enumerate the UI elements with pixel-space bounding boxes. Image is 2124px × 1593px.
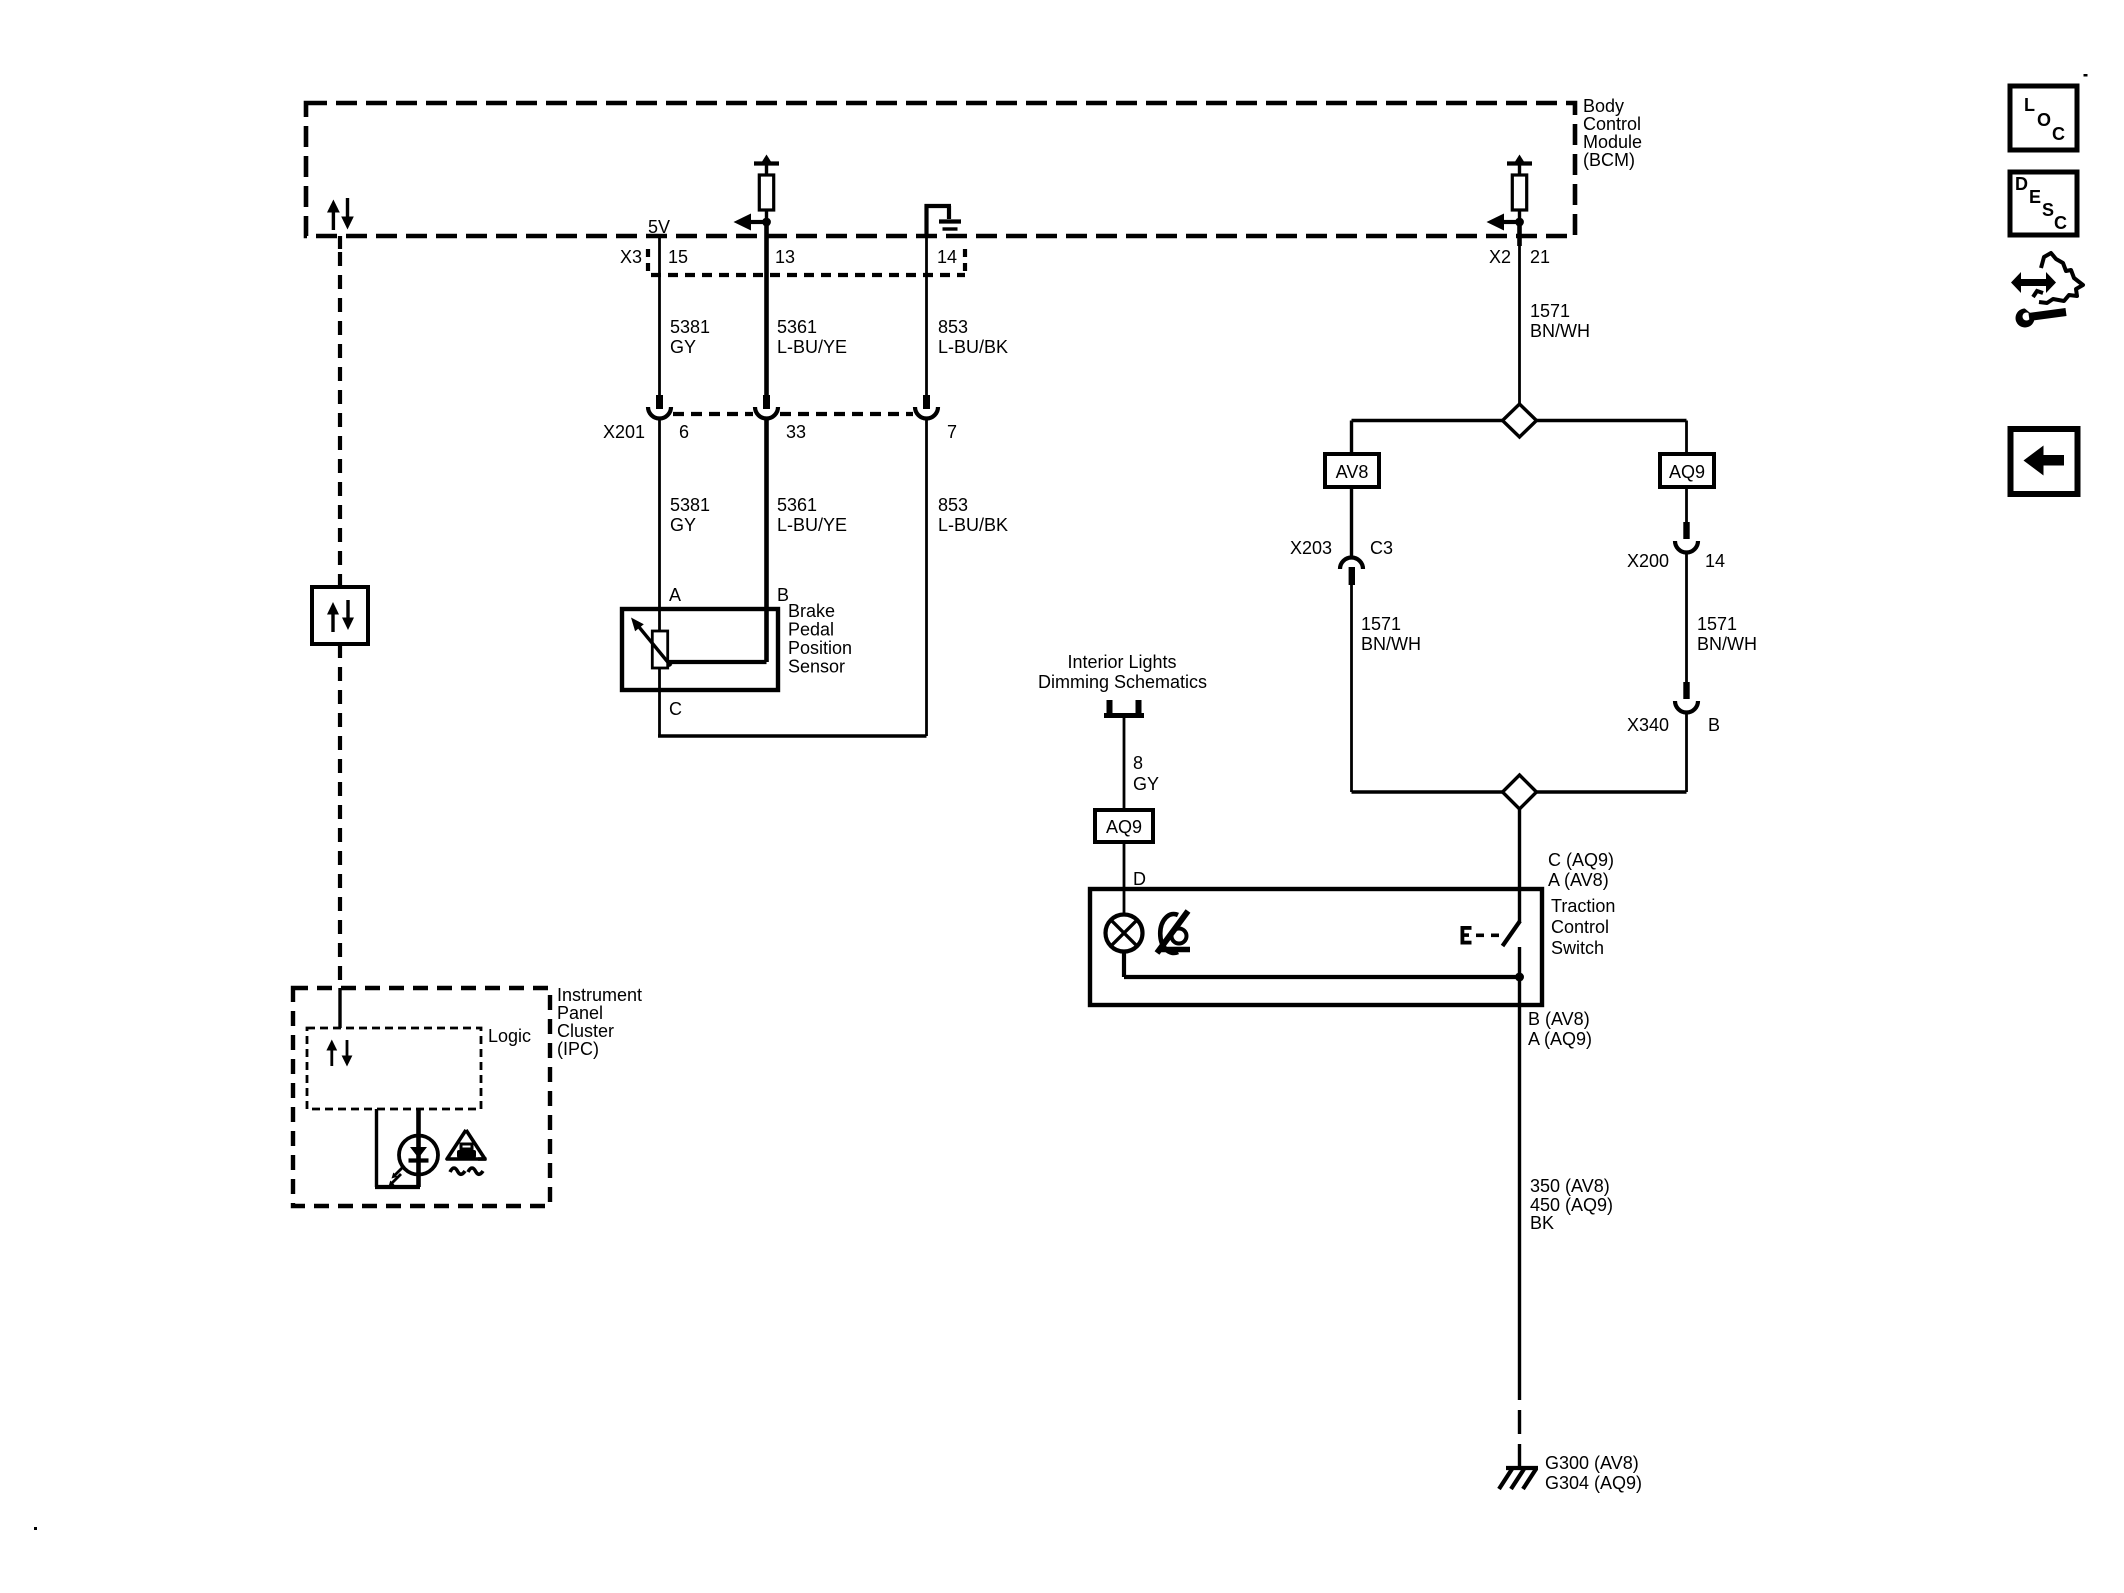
page mark top right bbox=[2084, 74, 2088, 77]
svg-text:BN/WH: BN/WH bbox=[1697, 634, 1757, 654]
svg-text:14: 14 bbox=[937, 247, 957, 267]
label 5361 L-BU/YE (upper) bbox=[777, 317, 847, 357]
svg-text:Pedal: Pedal bbox=[788, 620, 834, 640]
svg-text:Instrument: Instrument bbox=[557, 985, 642, 1005]
TC off icon (switch) bbox=[1157, 911, 1190, 953]
svg-text:C: C bbox=[2052, 124, 2065, 144]
serial data arrows (logic) bbox=[326, 1040, 352, 1067]
lamp (switch illumination) bbox=[1106, 915, 1143, 952]
svg-text:O: O bbox=[2037, 110, 2051, 130]
ESC warning icon (IPC) bbox=[447, 1130, 487, 1174]
svg-text:(BCM): (BCM) bbox=[1583, 150, 1635, 170]
svg-text:450 (AQ9): 450 (AQ9) bbox=[1530, 1195, 1613, 1215]
svg-text:5V: 5V bbox=[648, 217, 670, 237]
wire 853 (X201-7 to sensor C) bbox=[925, 419, 928, 736]
wire switch to ground bbox=[1518, 1005, 1521, 1468]
potentiometer (sensor element) bbox=[631, 618, 671, 669]
svg-text:E: E bbox=[2029, 187, 2041, 207]
label Brake Pedal Position Sensor bbox=[788, 601, 852, 677]
svg-text:X2: X2 bbox=[1489, 247, 1511, 267]
label B (AV8) A (AQ9) bbox=[1528, 1009, 1592, 1049]
label Interior Lights Dimming Schematics bbox=[1038, 652, 1207, 692]
svg-text:Switch: Switch bbox=[1551, 938, 1604, 958]
svg-text:GY: GY bbox=[1133, 774, 1159, 794]
label 5381 GY (lower) bbox=[670, 495, 710, 535]
wire wiper B inside sensor bbox=[668, 660, 767, 664]
svg-text:BN/WH: BN/WH bbox=[1361, 634, 1421, 654]
label BCM bbox=[1583, 96, 1642, 170]
wire into logic bbox=[338, 988, 341, 1028]
svg-text:853: 853 bbox=[938, 495, 968, 515]
svg-text:Control: Control bbox=[1583, 114, 1641, 134]
svg-text:L: L bbox=[2024, 95, 2035, 115]
svg-text:L-BU/BK: L-BU/BK bbox=[938, 515, 1008, 535]
svg-text:15: 15 bbox=[668, 247, 688, 267]
svg-text:X340: X340 bbox=[1627, 715, 1669, 735]
icon DESC box bbox=[2010, 172, 2077, 235]
svg-text:Body: Body bbox=[1583, 96, 1624, 116]
svg-text:L-BU/BK: L-BU/BK bbox=[938, 337, 1008, 357]
svg-text:C3: C3 bbox=[1370, 538, 1393, 558]
wire pin 15 (5381) bbox=[658, 236, 661, 395]
svg-text:BN/WH: BN/WH bbox=[1530, 321, 1590, 341]
net AV8 tag box bbox=[1325, 421, 1379, 488]
svg-text:5361: 5361 bbox=[777, 495, 817, 515]
svg-text:D: D bbox=[1133, 869, 1146, 889]
wire LED loop bbox=[375, 1109, 420, 1187]
splice diamond (top) bbox=[1352, 404, 1687, 437]
label 853 L-BU/BK (upper) bbox=[938, 317, 1008, 357]
svg-text:Interior Lights: Interior Lights bbox=[1067, 652, 1176, 672]
label C (AQ9) A (AV8) bbox=[1548, 850, 1614, 890]
svg-text:X203: X203 bbox=[1290, 538, 1332, 558]
resistor R2 (BCM pull-up, pin 21) bbox=[1507, 155, 1532, 220]
node junction dot (pin 13) bbox=[762, 218, 771, 227]
wire D into switch bbox=[1123, 842, 1126, 915]
component box: Traction Control Switch bbox=[1090, 889, 1542, 1005]
node junction (switch output) bbox=[1515, 973, 1524, 982]
svg-text:B: B bbox=[1708, 715, 1720, 735]
svg-text:Logic: Logic bbox=[488, 1026, 531, 1046]
label 1571 BN/WH (right) bbox=[1697, 614, 1757, 654]
wire lamp to switch common bbox=[1124, 952, 1520, 978]
svg-text:BK: BK bbox=[1530, 1213, 1554, 1233]
svg-text:L-BU/YE: L-BU/YE bbox=[777, 515, 847, 535]
label 350 (AV8) 450 (AQ9) BK bbox=[1530, 1176, 1613, 1233]
serial data arrows (BCM) bbox=[327, 198, 354, 230]
net AQ9 tag box (right) bbox=[1660, 421, 1714, 488]
component box: Brake Pedal Position Sensor bbox=[622, 609, 778, 690]
svg-text:(IPC): (IPC) bbox=[557, 1039, 599, 1059]
svg-text:C: C bbox=[2054, 213, 2067, 233]
signal arrow (BCM input, pin 21) bbox=[1487, 214, 1520, 231]
wire 1571 right branch bbox=[1685, 553, 1688, 684]
svg-text:AQ9: AQ9 bbox=[1669, 462, 1705, 482]
wire serial data (dashed, BCM to IPC) bbox=[338, 236, 342, 988]
label 5361 L-BU/YE (lower) bbox=[777, 495, 847, 535]
label 853 L-BU/BK (lower) bbox=[938, 495, 1008, 535]
off-page connector bracket bbox=[1104, 700, 1144, 716]
wire pin 13 (5361) bbox=[764, 224, 769, 395]
svg-text:21: 21 bbox=[1530, 247, 1550, 267]
signal arrow (BCM input, pin 13) bbox=[734, 214, 767, 231]
svg-text:AV8: AV8 bbox=[1336, 462, 1369, 482]
svg-text:Control: Control bbox=[1551, 917, 1609, 937]
svg-text:6: 6 bbox=[679, 422, 689, 442]
wire X340 down bbox=[1685, 713, 1688, 793]
wire C (sensor output) bbox=[658, 668, 661, 736]
connector X2 labels bbox=[1489, 247, 1550, 267]
svg-text:1571: 1571 bbox=[1530, 301, 1570, 321]
svg-text:A (AV8): A (AV8) bbox=[1548, 870, 1609, 890]
switch contact (E) bbox=[1461, 926, 1500, 945]
serial data gateway box bbox=[312, 587, 368, 644]
svg-text:X201: X201 bbox=[603, 422, 645, 442]
wire pin 21 (1571) bbox=[1517, 224, 1522, 404]
svg-text:7: 7 bbox=[947, 422, 957, 442]
connector X201 row bbox=[603, 395, 957, 442]
connector X203 bbox=[1290, 538, 1393, 585]
label Traction Control Switch bbox=[1551, 896, 1615, 958]
svg-text:C: C bbox=[669, 699, 682, 719]
wire 1571 left branch bbox=[1350, 585, 1353, 792]
label G300 (AV8) G304 (AQ9) bbox=[1545, 1453, 1642, 1493]
icon tools/repair bbox=[2011, 253, 2083, 328]
wire AV8 to X203 bbox=[1350, 487, 1353, 557]
net AQ9 tag box bbox=[1095, 810, 1153, 842]
module box IPC (dashed) bbox=[293, 988, 550, 1206]
svg-text:350 (AV8): 350 (AV8) bbox=[1530, 1176, 1610, 1196]
connector X340 bbox=[1627, 682, 1720, 735]
label IPC bbox=[557, 985, 642, 1059]
svg-text:5381: 5381 bbox=[670, 495, 710, 515]
label 1571 BN/WH (left) bbox=[1361, 614, 1421, 654]
svg-text:GY: GY bbox=[670, 337, 696, 357]
svg-text:5381: 5381 bbox=[670, 317, 710, 337]
svg-text:AQ9: AQ9 bbox=[1106, 817, 1142, 837]
icon back-arrow box bbox=[2011, 429, 2078, 494]
ground (BCM internal, pin 14) bbox=[925, 204, 962, 236]
switch blade bbox=[1503, 809, 1521, 1005]
wire 5361 (X201-33 to sensor B) bbox=[764, 419, 769, 662]
node junction dot (pin 21) bbox=[1515, 218, 1524, 227]
svg-text:Cluster: Cluster bbox=[557, 1021, 614, 1041]
wire pin 14 (853) bbox=[925, 236, 928, 395]
module box BCM (dashed) bbox=[306, 103, 1575, 236]
svg-text:X200: X200 bbox=[1627, 551, 1669, 571]
connector X200 bbox=[1627, 522, 1725, 571]
svg-text:853: 853 bbox=[938, 317, 968, 337]
logic box (dashed) bbox=[307, 1028, 481, 1109]
svg-text:8: 8 bbox=[1133, 753, 1143, 773]
wire C to X201-7 (bottom run) bbox=[658, 734, 927, 737]
chassis ground G300/G304 bbox=[1499, 1468, 1538, 1489]
svg-text:A: A bbox=[669, 585, 681, 605]
label 1571 BN/WH (top) bbox=[1530, 301, 1590, 341]
svg-text:Module: Module bbox=[1583, 132, 1642, 152]
svg-text:Dimming Schematics: Dimming Schematics bbox=[1038, 672, 1207, 692]
icon LOC box bbox=[2010, 86, 2077, 150]
svg-text:A (AQ9): A (AQ9) bbox=[1528, 1029, 1592, 1049]
label 5381 GY (upper) bbox=[670, 317, 710, 357]
svg-text:B (AV8): B (AV8) bbox=[1528, 1009, 1590, 1029]
svg-text:14: 14 bbox=[1705, 551, 1725, 571]
wire 5381 (X201-6 to sensor A) bbox=[658, 419, 661, 631]
svg-text:L-BU/YE: L-BU/YE bbox=[777, 337, 847, 357]
svg-text:G300 (AV8): G300 (AV8) bbox=[1545, 1453, 1639, 1473]
svg-text:1571: 1571 bbox=[1697, 614, 1737, 634]
svg-text:Brake: Brake bbox=[788, 601, 835, 621]
svg-text:1571: 1571 bbox=[1361, 614, 1401, 634]
splice diamond (bottom) bbox=[1352, 775, 1687, 809]
resistor R1 (BCM pull-up, pin 13) bbox=[754, 155, 779, 220]
LED indicator (IPC) bbox=[389, 1136, 439, 1187]
svg-text:5361: 5361 bbox=[777, 317, 817, 337]
svg-text:Traction: Traction bbox=[1551, 896, 1615, 916]
svg-text:D: D bbox=[2015, 174, 2028, 194]
connector X3 row bbox=[620, 247, 965, 275]
label 8 GY bbox=[1133, 753, 1159, 794]
svg-text:13: 13 bbox=[775, 247, 795, 267]
svg-text:C (AQ9): C (AQ9) bbox=[1548, 850, 1614, 870]
wire AQ9 to X200 bbox=[1685, 487, 1688, 523]
svg-text:Sensor: Sensor bbox=[788, 657, 845, 677]
page mark bbox=[34, 1527, 37, 1530]
svg-text:X3: X3 bbox=[620, 247, 642, 267]
svg-text:G304 (AQ9): G304 (AQ9) bbox=[1545, 1473, 1642, 1493]
wire 8 GY bbox=[1123, 718, 1126, 810]
svg-text:Panel: Panel bbox=[557, 1003, 603, 1023]
svg-text:S: S bbox=[2042, 200, 2054, 220]
svg-text:33: 33 bbox=[786, 422, 806, 442]
svg-text:Position: Position bbox=[788, 638, 852, 658]
svg-text:GY: GY bbox=[670, 515, 696, 535]
